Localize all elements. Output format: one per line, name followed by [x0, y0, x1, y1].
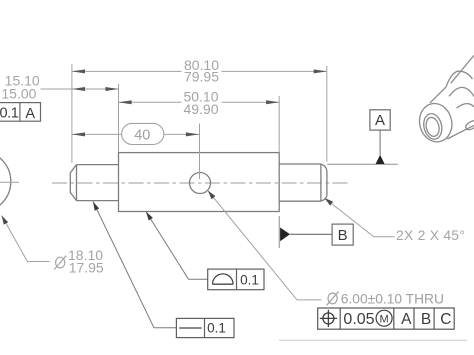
svg-text:2X 2 X 45°: 2X 2 X 45°: [396, 227, 465, 243]
svg-text:A: A: [375, 112, 385, 129]
shaft centerline: [52, 182, 348, 184]
dia symbol: [54, 256, 66, 270]
svg-text:40: 40: [134, 128, 150, 144]
dia 18.10/17.95 callout: [2, 216, 50, 262]
left stub bottom edge: [77, 200, 119, 202]
chamfer leader: [325, 198, 395, 237]
FCF surface profile 0.1: [146, 212, 208, 280]
extension line below big-right for datum B: [278, 216, 280, 248]
iso stub outer end ellipse: [416, 100, 456, 145]
iso big cylinder rear face arc: [449, 87, 474, 96]
svg-text:15.00: 15.00: [1, 85, 36, 101]
hole callout leader: [208, 191, 322, 300]
arrow 15 right: [105, 87, 118, 91]
dimension 80.10 line: [72, 70, 182, 72]
svg-text:C: C: [440, 311, 451, 328]
extension line big-left x=118.5: [118, 84, 120, 152]
surface profile symbol: [213, 274, 234, 284]
right stub bottom edge: [279, 200, 321, 202]
iso chamfer ellipse: [421, 112, 444, 141]
isometric view: [416, 55, 474, 145]
arrow 50 right: [266, 100, 279, 104]
M circle modifier: [376, 310, 392, 326]
svg-text:0.1: 0.1: [207, 321, 226, 336]
svg-text:M: M: [380, 314, 389, 326]
hole callout text: [327, 292, 339, 306]
arrow 80.10 left: [72, 69, 85, 73]
svg-text:6.00±0.10 THRU: 6.00±0.10 THRU: [341, 291, 444, 306]
extension line left end x=71.9: [71, 64, 73, 163]
arrow 50 left: [119, 100, 132, 104]
datum A triangle: [376, 155, 385, 164]
stadium around 40: [122, 123, 164, 144]
arrow 80.10 right: [314, 69, 327, 73]
svg-text:0.1: 0.1: [0, 105, 19, 121]
iso rear bottom hook: [466, 121, 474, 130]
extension line right end x=326.8: [326, 66, 328, 162]
datum A stem: [379, 130, 381, 155]
svg-text:A: A: [401, 311, 412, 328]
faint bottom rule: [279, 339, 467, 341]
end view circle (left edge, cut off): [0, 151, 11, 213]
iso end face inner ellipse: [424, 116, 441, 138]
extension line big-right x=279.2: [278, 96, 280, 152]
svg-text:49.90: 49.90: [183, 101, 218, 117]
shaft right end face: [321, 164, 327, 201]
iso rear stub chamfer arc: [457, 104, 474, 108]
svg-text:0.1: 0.1: [240, 272, 259, 287]
right chamfer edge: [320, 164, 322, 201]
datum A attachment line: [327, 163, 398, 165]
right stub top edge: [279, 163, 321, 165]
dimension 50.10/49.90 line: [119, 101, 182, 103]
end view horizontal centerline: [0, 181, 19, 183]
iso stub top silhouette: [430, 87, 446, 103]
FCF top-left (cut off): 0.1 | A: [0, 103, 41, 122]
shaft left end face: [70, 165, 76, 201]
arrow 15 left: [72, 87, 85, 91]
svg-text:A: A: [25, 106, 35, 122]
svg-text:B: B: [421, 311, 431, 328]
iso big cylinder bottom silhouette: [447, 125, 474, 139]
position symbol: [320, 310, 337, 327]
dimension (40) line: [72, 133, 122, 135]
svg-text:B: B: [338, 227, 348, 244]
dimension 15.10/15.00 line: [41, 88, 119, 90]
arrow 40 left: [72, 132, 85, 136]
center body rectangle: [119, 153, 280, 212]
datum A box: [370, 110, 390, 130]
hole circle: [190, 173, 211, 194]
datum B box: [332, 224, 353, 245]
datum B triangle: [280, 228, 290, 242]
left stub top edge: [77, 164, 119, 166]
svg-text:0.05: 0.05: [343, 311, 374, 328]
svg-text:79.95: 79.95: [184, 69, 219, 85]
FCF straightness 0.1: [93, 202, 176, 328]
shaft left chamfer edge: [76, 165, 78, 201]
arrow 40 right: [186, 132, 199, 136]
hole vertical centerline / extension: [199, 124, 201, 180]
svg-text:17.95: 17.95: [69, 259, 104, 275]
datum B line: [290, 233, 332, 235]
FCF position of hole: [318, 308, 455, 329]
iso big cylinder front face arc: [446, 71, 472, 87]
iso rear stub top silhouette: [451, 55, 474, 83]
